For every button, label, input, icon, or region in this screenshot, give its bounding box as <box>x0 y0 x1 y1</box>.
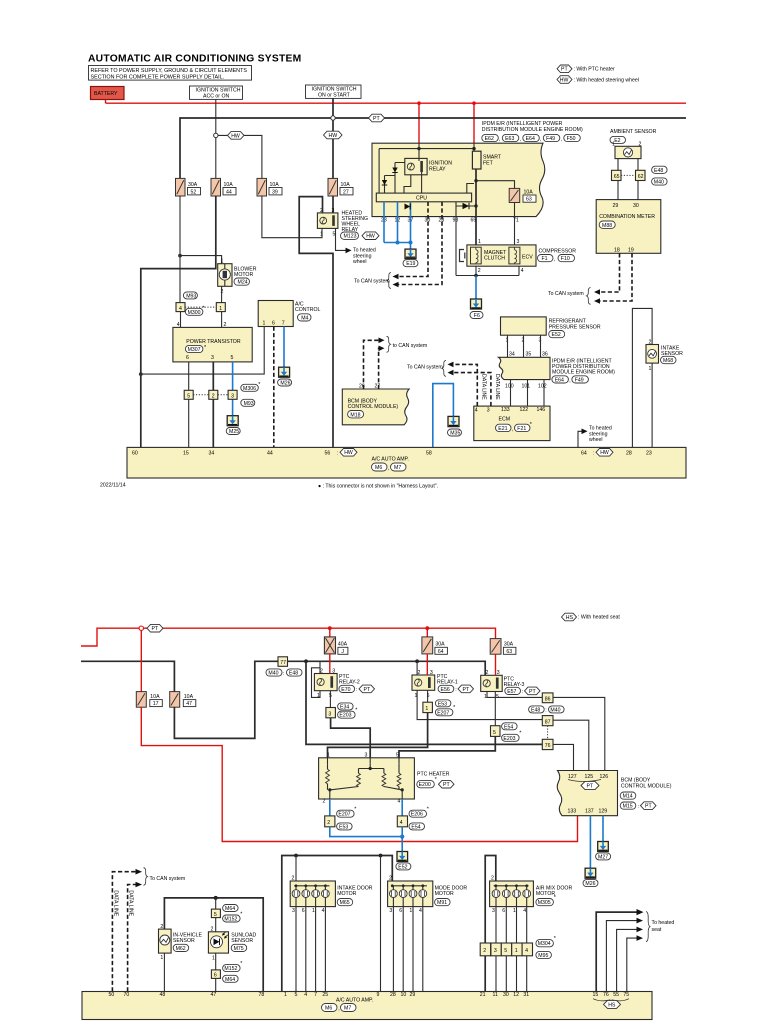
fuse 10A 47 <box>170 692 196 708</box>
oval M18 <box>348 411 364 418</box>
wire 65 to meter pin29 <box>617 181 619 200</box>
svg-text:E19: E19 <box>406 261 415 267</box>
svg-text:HW: HW <box>600 450 609 456</box>
heated seat arrows <box>596 912 637 991</box>
svg-text:To CAN system: To CAN system <box>354 279 390 285</box>
oval E70 <box>339 685 355 692</box>
svg-text:39: 39 <box>272 189 278 195</box>
air mix feed <box>485 856 496 992</box>
wire PTC pin4 blue <box>401 799 403 816</box>
svg-text:1: 1 <box>263 321 266 327</box>
fuse 30A 64 <box>422 637 448 655</box>
connector box 5 top <box>211 909 220 918</box>
svg-text:PT: PT <box>463 687 470 693</box>
svg-text:137: 137 <box>585 809 594 815</box>
svg-text:3: 3 <box>211 355 214 361</box>
wire blower pin2 to connector 1 <box>221 286 223 302</box>
AC auto amp bar bottom <box>82 992 652 1020</box>
arrow BCM CAN 2 <box>379 346 385 352</box>
oval M88 <box>599 221 615 228</box>
svg-text:58: 58 <box>426 451 432 457</box>
svg-text:64: 64 <box>438 649 444 655</box>
connector 65 <box>612 170 622 180</box>
wire red drop fuse J <box>329 628 331 637</box>
svg-text:PT: PT <box>443 782 450 788</box>
svg-text:63: 63 <box>506 649 512 655</box>
air mix connector row <box>480 943 532 956</box>
svg-text:18: 18 <box>614 247 620 253</box>
AC control box <box>258 301 320 327</box>
junction circle ON/START at bus <box>331 116 335 120</box>
svg-text:: With heated seat: : With heated seat <box>578 615 620 621</box>
svg-text:2: 2 <box>649 339 652 345</box>
wire rail to bar pin9 <box>380 856 382 992</box>
dotted connector link <box>185 306 216 308</box>
hexagon PT on bus <box>369 114 385 122</box>
svg-text:E207: E207 <box>437 710 449 716</box>
wire red battery bus <box>106 102 687 104</box>
svg-text:11: 11 <box>493 992 498 998</box>
svg-text:BATTERY: BATTERY <box>94 91 118 97</box>
shield M25 <box>227 416 238 426</box>
in-vehicle sensor <box>159 924 203 961</box>
arrow CAN meter 2 <box>594 298 600 304</box>
connector box 3 b <box>326 708 336 718</box>
oval M24 <box>234 278 250 285</box>
svg-text:M123: M123 <box>344 234 357 240</box>
hexagon PT BCM <box>581 781 599 789</box>
oval E21 <box>496 424 512 431</box>
junction intake pin2 <box>294 854 298 858</box>
svg-text:wheel: wheel <box>589 437 603 443</box>
PTC heater box <box>319 753 450 805</box>
svg-text:6: 6 <box>399 908 402 914</box>
oval M6 <box>372 463 388 471</box>
svg-text:6: 6 <box>302 908 305 914</box>
arrow ECM CAN 1 <box>448 362 454 368</box>
svg-text:2: 2 <box>224 322 227 328</box>
svg-text:4: 4 <box>177 322 180 328</box>
brace ECM CAN <box>442 360 446 376</box>
svg-text:28: 28 <box>390 992 396 998</box>
wire rail left drop to CPU <box>378 149 380 194</box>
svg-text:3: 3 <box>487 408 490 414</box>
connector box 86 <box>542 693 553 703</box>
svg-text:40A: 40A <box>338 641 348 647</box>
svg-text:25: 25 <box>322 992 328 998</box>
svg-text:70: 70 <box>124 992 130 998</box>
wire box86 to BCM 126 <box>553 697 605 770</box>
svg-text:3: 3 <box>517 239 520 245</box>
svg-text:4: 4 <box>322 908 325 914</box>
connector box 77 <box>278 657 288 667</box>
wire relay2 pin5 to connector3 <box>329 691 331 708</box>
svg-text:87: 87 <box>545 719 551 725</box>
wire IPDM2 pin102 <box>543 380 545 407</box>
wire to intake pin2 <box>295 856 297 882</box>
svg-text:47: 47 <box>211 992 217 998</box>
wire relay3 pin5 to connector5 <box>494 692 496 726</box>
svg-text:133: 133 <box>568 809 577 815</box>
mode door motor <box>388 876 468 914</box>
svg-text:76: 76 <box>545 743 551 749</box>
svg-text:E64: E64 <box>526 136 535 142</box>
oval M27 <box>596 853 611 860</box>
svg-text:75: 75 <box>623 992 629 998</box>
svg-text:AMBIENT SENSOR: AMBIENT SENSOR <box>610 129 657 135</box>
wire relay coil to CPU <box>404 175 411 193</box>
svg-text:34: 34 <box>509 351 515 357</box>
wire sensor pin1 <box>507 335 509 357</box>
svg-text:E52: E52 <box>398 864 407 870</box>
svg-text:SECTION FOR COMPLETE POWER SUP: SECTION FOR COMPLETE POWER SUPPLY DETAIL… <box>91 74 225 80</box>
svg-text:17: 17 <box>153 701 159 707</box>
smart FET <box>472 151 501 169</box>
svg-text:3: 3 <box>231 394 234 400</box>
svg-text:36: 36 <box>542 351 548 357</box>
svg-text:M64: M64 <box>225 977 235 983</box>
junction clutch ground <box>474 274 478 278</box>
oval E34 <box>338 703 354 710</box>
svg-text:5: 5 <box>214 912 217 918</box>
diode D1 <box>392 163 405 194</box>
connector box 6 <box>211 970 220 979</box>
svg-text:,: , <box>499 137 500 143</box>
wire CPU pin98 <box>456 202 519 276</box>
svg-text:M91: M91 <box>437 900 447 906</box>
svg-text:MODULE ENGINE ROOM): MODULE ENGINE ROOM) <box>552 370 615 376</box>
svg-text:101: 101 <box>522 384 531 390</box>
svg-text:M64: M64 <box>225 906 235 912</box>
oval M6 b <box>322 1004 338 1012</box>
svg-text:28: 28 <box>626 451 632 457</box>
oval M25 <box>226 428 240 435</box>
svg-text:E206: E206 <box>411 812 423 818</box>
oval M40 <box>652 178 668 185</box>
svg-text:: With PTC heater: : With PTC heater <box>574 67 615 73</box>
wire ECM CAN L dashed <box>453 373 491 407</box>
svg-text:10: 10 <box>401 992 407 998</box>
svg-text:2: 2 <box>327 820 330 826</box>
svg-text:4: 4 <box>523 908 526 914</box>
fuse 30A 63 <box>490 639 516 655</box>
wire bus drop to box 76 <box>306 661 542 744</box>
svg-text:60: 60 <box>132 451 138 457</box>
oval E64 <box>523 134 540 141</box>
svg-text:E200: E200 <box>419 782 431 788</box>
wire red PT vertical to fuse 17 <box>140 630 142 691</box>
svg-text:,: , <box>561 137 562 143</box>
wire CPU pin12 blue <box>397 202 399 243</box>
oval M7 b <box>341 1004 357 1012</box>
svg-text:E52: E52 <box>552 332 561 338</box>
svg-text:SENSOR: SENSOR <box>173 938 195 944</box>
svg-text:AUTOMATIC AIR CONDITIONING SYS: AUTOMATIC AIR CONDITIONING SYSTEM <box>88 54 301 65</box>
shield M26 b <box>585 868 596 878</box>
oval M7 <box>391 463 407 471</box>
svg-text:1: 1 <box>312 908 315 914</box>
svg-text:M88: M88 <box>602 223 612 229</box>
svg-text:● : This connector is not show: ● : This connector is not shown in "Harn… <box>318 484 438 490</box>
sensor common rail <box>164 898 263 992</box>
wire red feed bottom <box>81 628 496 646</box>
wire fuse52 to junction <box>179 196 181 303</box>
wire ON/START vertical <box>332 99 334 179</box>
svg-text:1: 1 <box>649 366 652 372</box>
svg-text:HW: HW <box>366 234 375 240</box>
svg-text:1: 1 <box>515 948 518 954</box>
svg-text:F50: F50 <box>567 136 576 142</box>
svg-text:to CAN system: to CAN system <box>393 343 428 349</box>
svg-text:M35: M35 <box>450 431 460 437</box>
svg-text:,: , <box>520 137 521 143</box>
wire relay1 pin1 to box87 <box>417 690 542 719</box>
wire PT pin3 to amp pin34 <box>212 362 214 448</box>
svg-text:E54: E54 <box>411 824 420 830</box>
clutch armature bracket <box>460 250 465 262</box>
svg-text:3: 3 <box>365 753 368 759</box>
svg-text:POWER TRANSISTOR: POWER TRANSISTOR <box>186 339 241 345</box>
svg-text:,: , <box>569 378 570 384</box>
junction sunload rail <box>214 896 218 900</box>
intake door motor <box>290 876 373 914</box>
wire black ACC feed bottom <box>81 661 174 691</box>
svg-text:CLUTCH: CLUTCH <box>484 256 505 262</box>
oval M93 upper <box>183 292 197 299</box>
junction red to IPDM ignition relay <box>417 101 421 105</box>
hexagon HW on ON/START line <box>324 131 343 139</box>
svg-text:To CAN system: To CAN system <box>407 364 443 370</box>
oval M26 <box>278 379 292 386</box>
oval M123 <box>341 232 359 239</box>
PTC relay-2 <box>314 668 359 699</box>
svg-text:3: 3 <box>332 208 335 214</box>
oval E62 <box>482 134 499 141</box>
junction rail relay <box>417 147 420 150</box>
wire clutch return <box>475 266 477 275</box>
svg-text:M14: M14 <box>623 794 633 800</box>
wire relay3 pin1 to box86 <box>487 692 542 698</box>
shield M27 <box>598 842 609 852</box>
oval E200 <box>417 781 435 788</box>
wires air mix motor to bar <box>496 907 527 992</box>
svg-text::: : <box>356 687 357 693</box>
oval M35 <box>448 429 462 436</box>
wire AC control pin6 dashed to amp pin44 <box>273 327 275 448</box>
svg-text:CONTROL MODULE): CONTROL MODULE) <box>621 783 672 789</box>
svg-text:4: 4 <box>304 992 307 998</box>
combination meter box <box>596 200 661 254</box>
wire red drop ignition relay <box>418 103 420 143</box>
brace CAN <box>387 273 391 289</box>
oval M152 a <box>223 915 241 922</box>
svg-text:4: 4 <box>525 948 528 954</box>
wire connector4 to PT pin4 <box>180 312 182 328</box>
svg-text:3: 3 <box>494 948 497 954</box>
svg-text:: With heated steering wheel: : With heated steering wheel <box>574 77 639 83</box>
svg-text:E2: E2 <box>614 138 620 144</box>
connector box 4 c <box>397 816 407 827</box>
wire box76 to BCM 127 <box>553 744 574 770</box>
svg-text:M25: M25 <box>229 429 239 435</box>
dotted link 87-76 <box>547 726 549 740</box>
svg-text:1: 1 <box>320 232 323 238</box>
svg-text:12: 12 <box>513 992 519 998</box>
svg-text::: : <box>522 689 523 695</box>
svg-text:35: 35 <box>526 351 532 357</box>
svg-text:2: 2 <box>292 876 295 882</box>
svg-text:44: 44 <box>267 451 273 457</box>
svg-text:To CAN system: To CAN system <box>548 291 584 297</box>
wire box87 to BCM 125 <box>553 720 589 770</box>
svg-text:5: 5 <box>496 694 499 700</box>
wire connector1 to PTC pin1 <box>328 713 428 758</box>
oval E56 <box>438 685 454 692</box>
oval E52 c <box>396 863 411 870</box>
wire amp pin58 blue to M35 <box>433 384 454 448</box>
svg-text:E48: E48 <box>531 707 540 713</box>
wire IPDM2 pin101 <box>527 380 529 407</box>
wire ambient pin1 down <box>617 159 619 171</box>
dotted link 65-62 <box>621 174 636 176</box>
wire connector3 to PTC pin3 <box>331 718 371 758</box>
arrow BCM CAN 1 <box>379 338 385 344</box>
svg-text:3: 3 <box>430 670 433 676</box>
svg-text:E63: E63 <box>505 136 514 142</box>
svg-text:65: 65 <box>471 218 477 224</box>
oval E203 a <box>338 711 356 718</box>
oval M68 <box>661 356 677 363</box>
oval F1 <box>538 255 554 262</box>
hexagon PT relay1 <box>458 685 474 693</box>
svg-text:M152: M152 <box>224 917 237 923</box>
shield M35 <box>448 416 459 426</box>
svg-text:2: 2 <box>486 670 489 676</box>
svg-text:133: 133 <box>501 407 510 413</box>
svg-text:ACC or ON: ACC or ON <box>203 93 229 99</box>
wire FET feed <box>473 143 475 151</box>
wire sunload pin1 to bar 47 <box>215 953 217 991</box>
svg-text::: : <box>337 451 338 457</box>
svg-text:PT: PT <box>152 626 159 632</box>
svg-text:65: 65 <box>614 174 620 180</box>
svg-text:2: 2 <box>160 924 163 930</box>
oval M152 b <box>223 965 241 972</box>
oval F21 <box>515 424 531 431</box>
IPDM E/R box <box>372 143 545 216</box>
svg-text:M65: M65 <box>340 900 350 906</box>
oval M304 <box>536 940 554 947</box>
wire red fuse64 to relay1 pin3 <box>426 654 428 675</box>
svg-text:1: 1 <box>221 258 224 264</box>
svg-text:HS: HS <box>566 615 574 621</box>
svg-text:122: 122 <box>520 407 529 413</box>
compressor assembly <box>467 245 536 266</box>
data line 1 dashed <box>112 872 136 992</box>
wire ACC vertical <box>215 100 217 179</box>
svg-text:6: 6 <box>502 908 505 914</box>
wire red drop fuse 64 <box>426 628 428 637</box>
svg-text:15: 15 <box>593 992 599 998</box>
oval E48 b <box>287 669 303 676</box>
svg-text:DATA LINE: DATA LINE <box>494 374 500 400</box>
svg-text:6: 6 <box>272 321 275 327</box>
svg-text:To CAN system: To CAN system <box>150 876 186 882</box>
svg-text:E48: E48 <box>289 671 298 677</box>
PTC relay-3 <box>481 670 525 700</box>
oval M64 a <box>223 905 239 912</box>
svg-text:62: 62 <box>638 174 644 180</box>
svg-text:44: 44 <box>226 189 232 195</box>
wire black ON/START bus <box>180 118 686 178</box>
oval E64 b <box>552 376 569 383</box>
power transistor box <box>173 322 252 362</box>
svg-text:10A: 10A <box>184 694 194 700</box>
svg-text:56: 56 <box>325 451 331 457</box>
svg-text:146: 146 <box>537 407 546 413</box>
svg-text:4: 4 <box>419 908 422 914</box>
wire junction to blower pin1 <box>180 256 222 264</box>
svg-text:E54: E54 <box>504 724 513 730</box>
svg-text:78: 78 <box>259 992 265 998</box>
wire relay2 coil jumper loop <box>312 668 321 698</box>
svg-text:4: 4 <box>475 408 478 414</box>
svg-text:RELAY: RELAY <box>429 166 446 172</box>
svg-text:126: 126 <box>600 774 609 780</box>
PTC relay-1 <box>412 670 458 699</box>
svg-text:,: , <box>554 257 555 263</box>
svg-text:M6: M6 <box>375 465 382 471</box>
wire meter pin18 CAN dashed <box>599 253 620 292</box>
legend HW <box>557 76 639 84</box>
blower motor <box>218 258 257 295</box>
svg-text:M26: M26 <box>585 881 595 887</box>
svg-text:7: 7 <box>282 321 285 327</box>
oval E19 <box>403 260 418 267</box>
svg-text:1: 1 <box>409 908 412 914</box>
wire relay contact feed <box>418 143 420 161</box>
oval M64 b <box>223 975 239 982</box>
svg-text:2: 2 <box>483 948 486 954</box>
svg-text:E53: E53 <box>339 824 348 830</box>
svg-text:3: 3 <box>492 908 495 914</box>
svg-text:E21: E21 <box>498 426 507 432</box>
svg-text:F49: F49 <box>575 377 584 383</box>
svg-text:MOTOR: MOTOR <box>337 891 356 897</box>
junction blue 37 <box>409 241 413 245</box>
oval E53 b <box>337 823 353 830</box>
wire CPU pin23 blue <box>383 202 385 243</box>
CPU bar <box>376 193 471 202</box>
svg-text:To heated: To heated <box>652 920 675 926</box>
svg-text:M93: M93 <box>244 401 254 407</box>
oval E57 <box>505 687 521 694</box>
wire ambient pin2 down <box>637 159 639 171</box>
wire blue PTC returns join <box>330 827 402 852</box>
svg-text:E48: E48 <box>654 168 663 174</box>
wire connector1 to PT pin2 <box>221 312 223 328</box>
svg-text:wheel: wheel <box>353 259 367 265</box>
fuse 10A 63 <box>509 188 536 202</box>
svg-text:10A: 10A <box>150 694 160 700</box>
svg-text:4: 4 <box>398 799 401 805</box>
svg-text:3: 3 <box>292 908 295 914</box>
oval E53 <box>435 700 451 707</box>
svg-text:129: 129 <box>599 809 608 815</box>
junction blue returns <box>400 835 404 839</box>
svg-text:HW: HW <box>344 450 353 456</box>
wire fuse39 to relay pin1 <box>262 196 322 238</box>
